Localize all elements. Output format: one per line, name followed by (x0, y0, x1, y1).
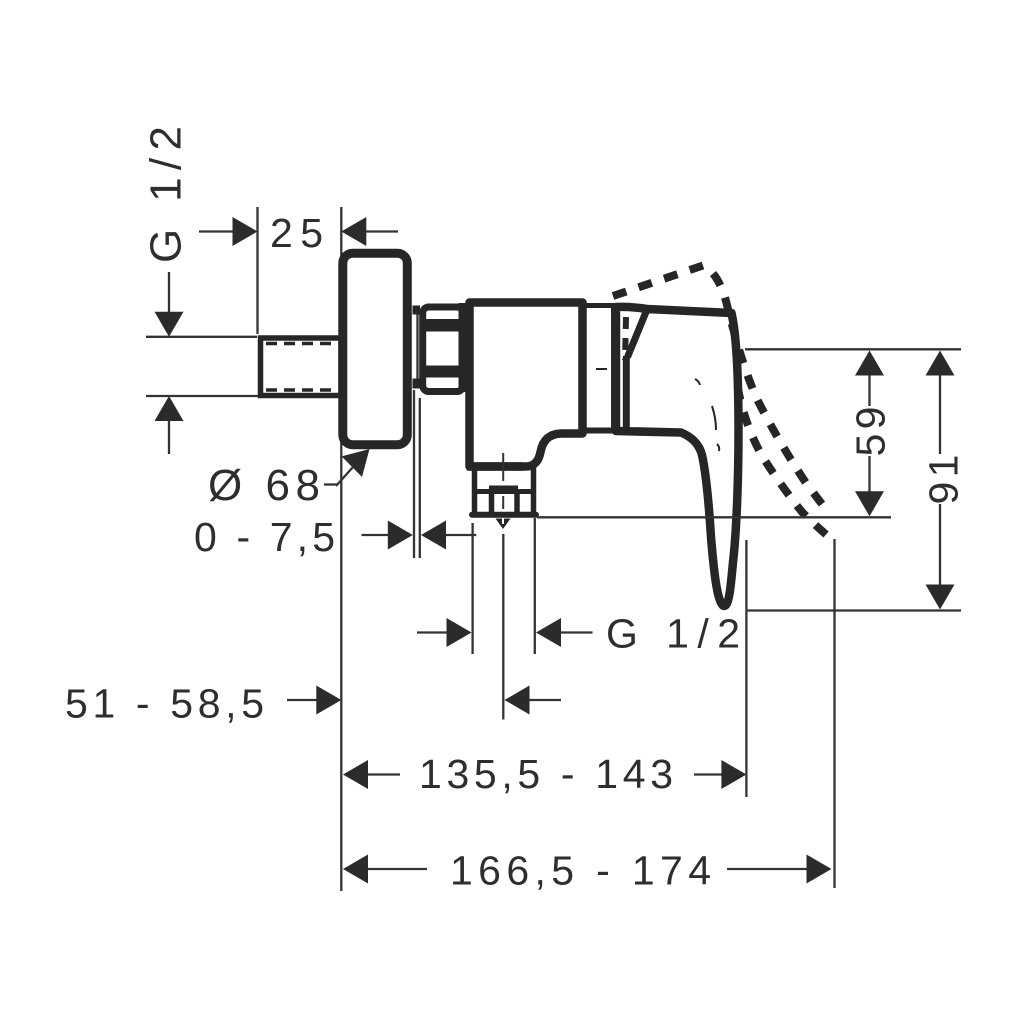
svg-text:166,5 - 174: 166,5 - 174 (450, 848, 711, 894)
svg-text:51 - 58,5: 51 - 58,5 (65, 681, 264, 727)
svg-text:135,5 - 143: 135,5 - 143 (419, 751, 673, 797)
svg-text:G 1/2: G 1/2 (606, 611, 740, 657)
svg-text:G 1/2: G 1/2 (142, 126, 191, 263)
svg-text:0 - 7,5: 0 - 7,5 (194, 514, 335, 560)
